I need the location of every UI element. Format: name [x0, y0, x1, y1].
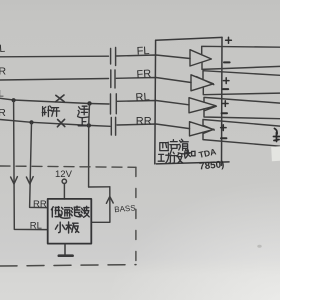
svg-text:FL: FL — [136, 45, 149, 58]
wire drop RL to filter — [14, 100, 48, 229]
arrow down on RL drop — [11, 177, 18, 184]
right edge scribble — [274, 129, 280, 142]
label kai (开) — [51, 108, 59, 117]
label dao (道) — [178, 139, 189, 154]
minus label A4 — [221, 137, 226, 139]
plus label A1 — [226, 37, 232, 43]
wire BASS horizontal — [89, 186, 110, 188]
label bo (波) — [81, 206, 89, 217]
op-amp A2 (FR) — [191, 75, 214, 91]
wire A1 + output — [202, 46, 280, 55]
label lv (滤) — [71, 206, 81, 217]
node RL junction left — [12, 98, 16, 102]
label fang (放) — [172, 152, 183, 163]
label si (四) — [160, 142, 169, 151]
svg-text:12V: 12V — [55, 169, 73, 180]
wire RR input left segment — [0, 120, 110, 127]
wire A2 - output — [203, 87, 280, 95]
capacitor C2 — [111, 70, 115, 88]
wire A4 + output — [203, 120, 280, 127]
plus label A2 — [223, 78, 229, 84]
wire RL input right segment into amp — [117, 101, 189, 105]
wire FL input right segment into amp — [117, 55, 190, 59]
label sheng (声) — [170, 140, 179, 154]
plus label A4 — [221, 125, 227, 131]
node RL junction right — [87, 101, 91, 105]
svg-text:FR: FR — [136, 68, 152, 81]
12V terminal circle — [62, 179, 66, 183]
minus label A2 — [223, 88, 228, 90]
op-amp A4 (RR) — [190, 122, 215, 136]
minus label A3 — [222, 112, 227, 114]
svg-text:7850): 7850) — [199, 159, 225, 172]
paper speck — [257, 245, 261, 248]
label xiao (小) — [55, 222, 64, 232]
svg-text:RL: RL — [30, 221, 42, 232]
label duan (断) — [42, 106, 52, 117]
wire FR input left segment — [0, 79, 109, 81]
label shang (上) — [78, 118, 87, 126]
wire RR input right segment into amp — [117, 124, 190, 129]
dashed enclosure right edge — [135, 168, 137, 266]
wire RL input left segment — [0, 98, 109, 104]
arrow up on BASS riser — [106, 196, 113, 203]
minus label A1 — [224, 61, 230, 63]
op-amp A3 (RL) — [189, 98, 216, 113]
capacitor C4 — [111, 117, 115, 135]
label di (低) — [51, 207, 61, 217]
amplifier box U1 — [155, 37, 229, 165]
plus label A3 — [223, 101, 229, 107]
svg-text:RR: RR — [136, 116, 152, 128]
ground — [59, 244, 73, 256]
svg-text:R: R — [0, 66, 7, 78]
X mark break on RR wire — [57, 119, 64, 127]
svg-text:L: L — [0, 89, 4, 100]
wire drop RR to filter — [30, 122, 48, 207]
svg-text:BASS: BASS — [114, 203, 136, 214]
svg-text:TDA: TDA — [198, 146, 217, 159]
svg-text:RR: RR — [33, 199, 47, 210]
hand written chinese glyphs — [42, 106, 195, 233]
label tong (通) — [61, 207, 70, 218]
X mark break on RL wire — [56, 95, 65, 127]
wire A2 + output — [203, 71, 280, 80]
node RR junction left — [29, 120, 33, 124]
node RR junction right — [87, 123, 91, 127]
label ban (板) — [66, 222, 79, 233]
wire BASS feed vertical to RL/RR nodes — [88, 103, 91, 187]
wire FR input right segment into amp — [116, 78, 191, 83]
wire A3 + output — [204, 97, 280, 103]
wire BASS riser from filter — [91, 187, 110, 223]
wire A3 - output — [204, 109, 280, 119]
dashed enclosure bottom edge — [0, 265, 136, 266]
wire A4 - output — [203, 132, 280, 146]
wire 12V to filter box — [63, 184, 65, 199]
label lian (连) — [78, 106, 89, 117]
op-amp A1 (FL) — [190, 50, 211, 66]
label gong (功) — [158, 153, 171, 163]
capacitor C1 — [111, 48, 116, 66]
capacitor C3 — [111, 94, 117, 114]
white correction patch — [271, 146, 281, 161]
low-pass filter board box — [48, 199, 92, 244]
wire FL input left segment — [0, 55, 109, 58]
text labels latin — [0, 43, 225, 232]
label ( — [185, 150, 186, 159]
svg-text:R: R — [0, 107, 6, 119]
svg-text:RL: RL — [135, 91, 150, 104]
label ru (如) — [186, 150, 195, 158]
arrow down on RR drop — [26, 177, 33, 184]
dashed enclosure top edge — [0, 166, 136, 167]
svg-text:L: L — [0, 43, 6, 55]
wire A1 - output — [202, 62, 280, 69]
